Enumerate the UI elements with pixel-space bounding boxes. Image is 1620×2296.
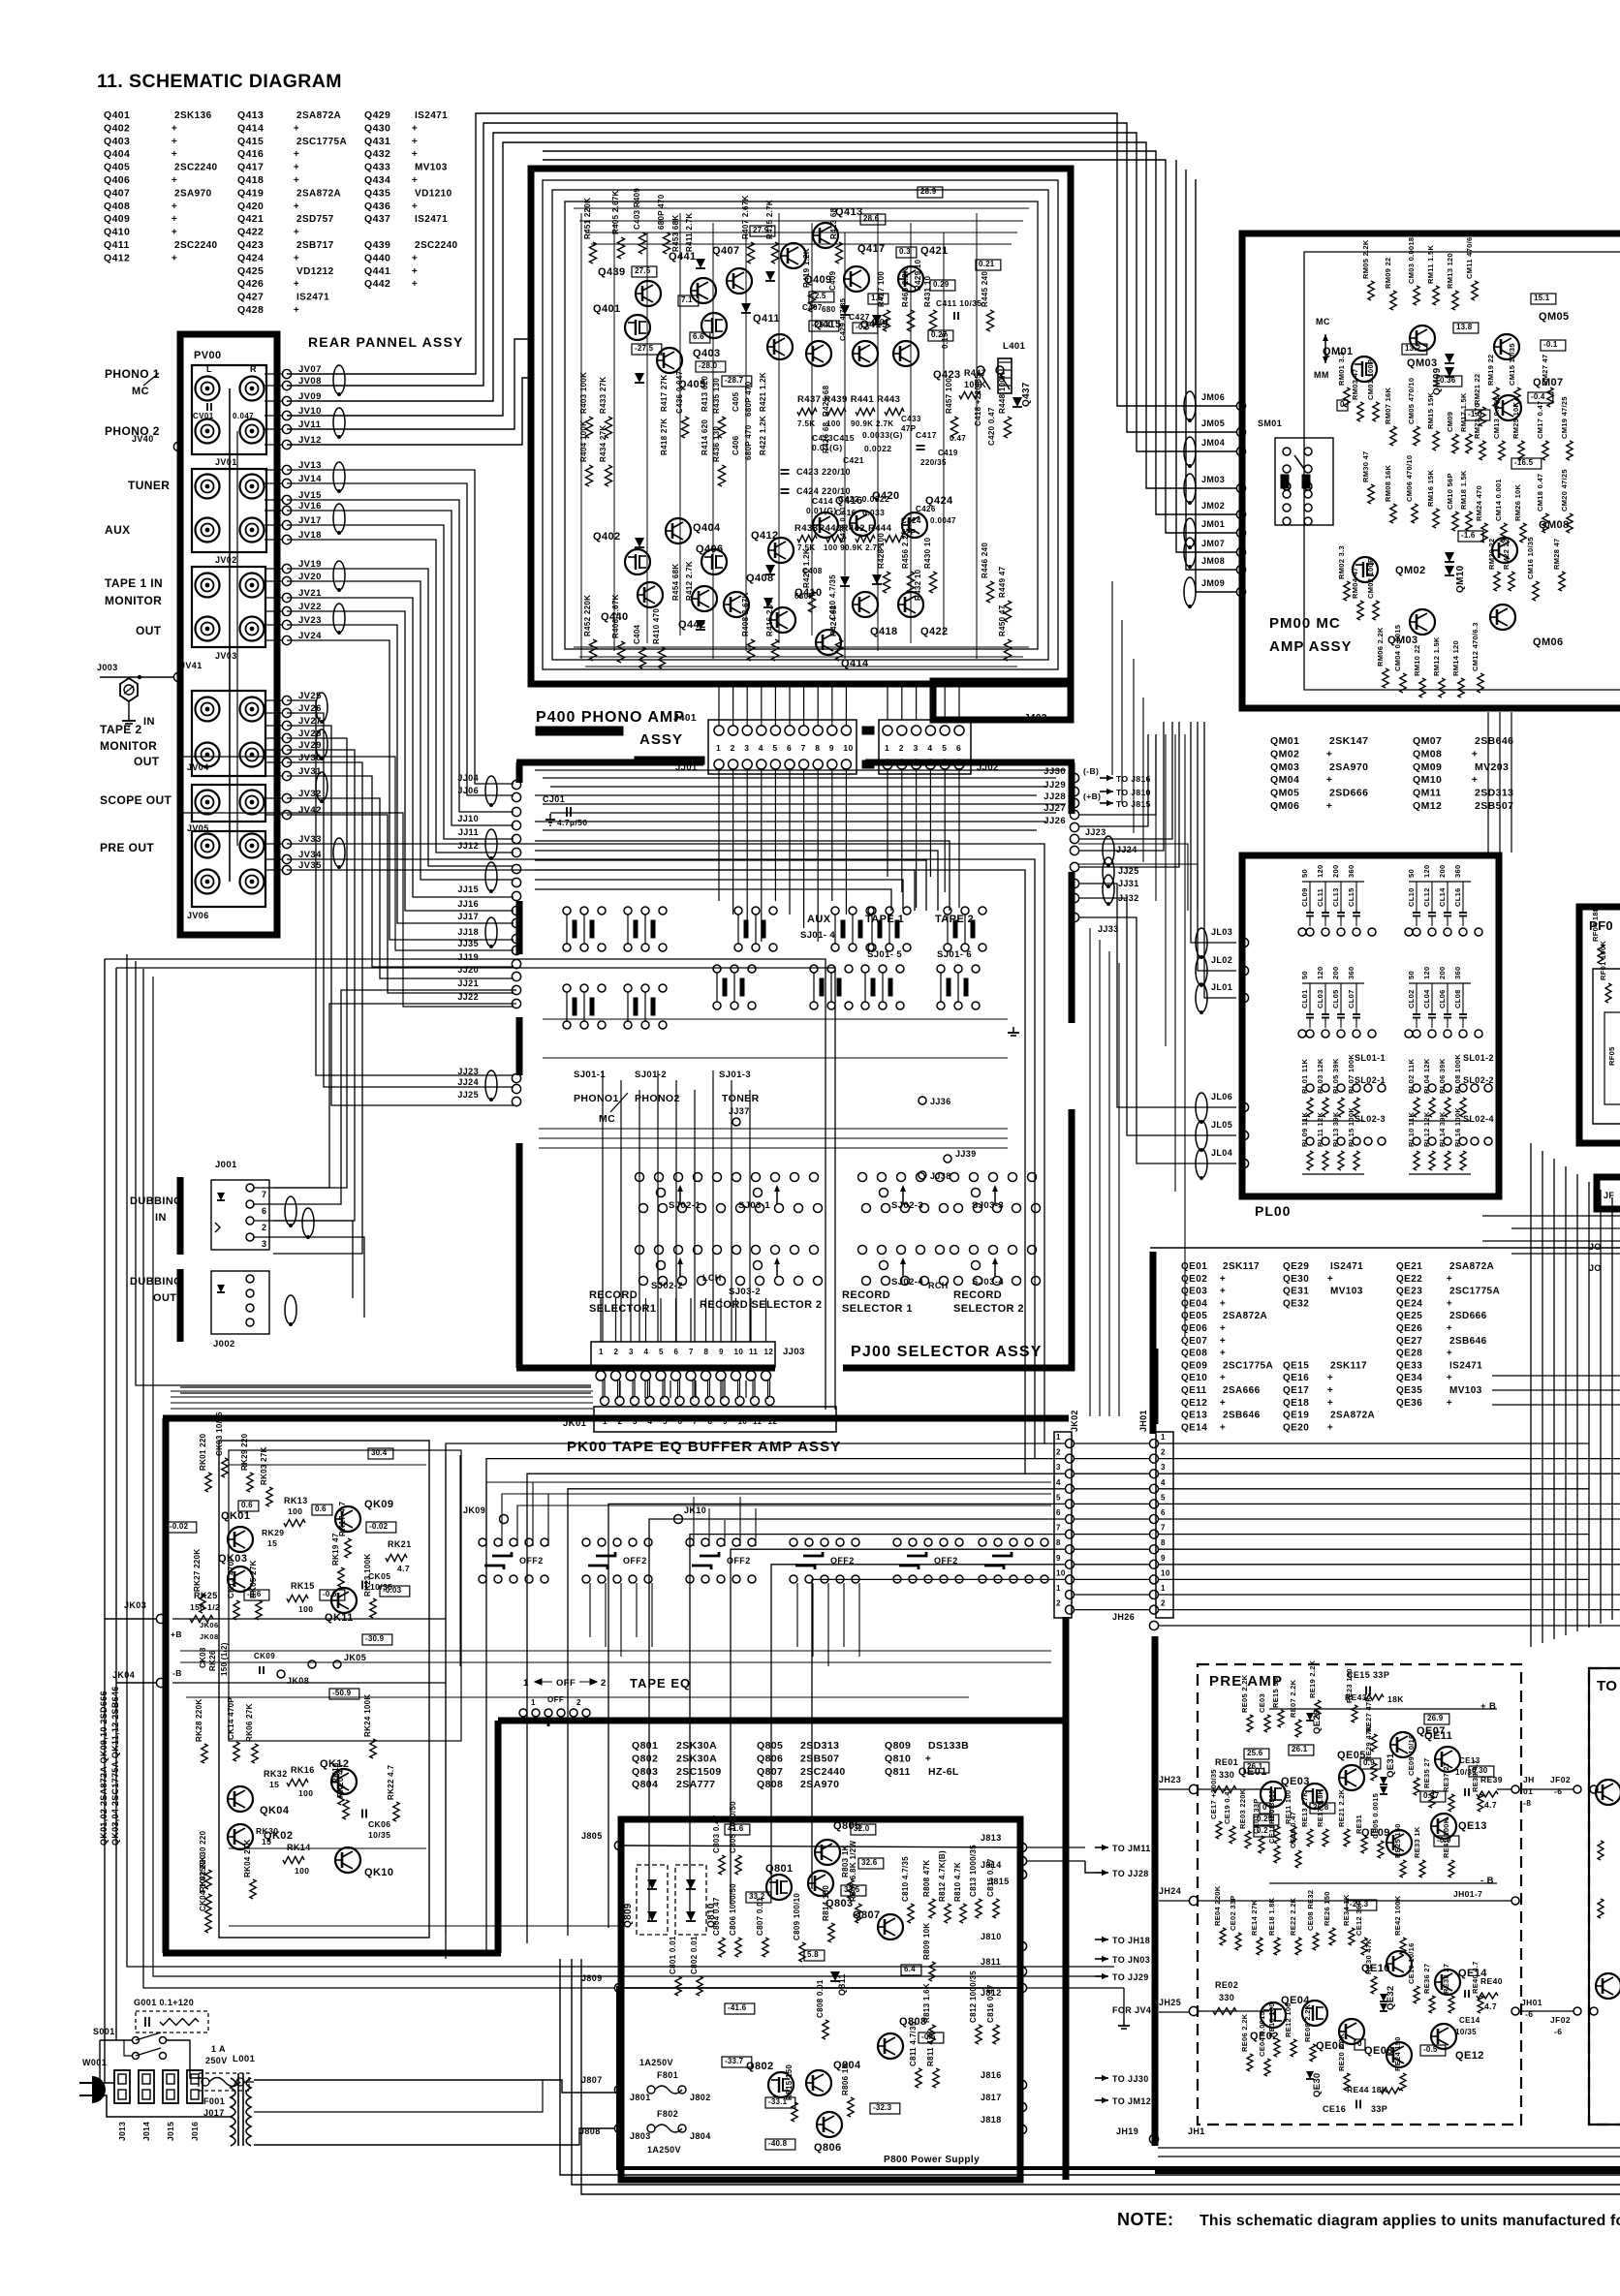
resistor CE04 0.0015 <box>1264 2059 1270 2076</box>
svg-text:TAPE EQ: TAPE EQ <box>630 1676 691 1691</box>
svg-text:TO JN03: TO JN03 <box>1112 1955 1150 1965</box>
pin J813 <box>1017 1843 1026 1851</box>
resistor C801 0.01 <box>675 1976 681 1996</box>
svg-text:Q414: Q414 <box>841 658 869 669</box>
svg-text:OFF2: OFF2 <box>519 1556 544 1566</box>
resistor RM02 3.3 <box>1344 581 1350 601</box>
svg-text:MM: MM <box>1314 370 1329 380</box>
wire rail heavy <box>618 1986 1620 2168</box>
voltage -0.4 <box>1528 392 1553 403</box>
svg-text:+: + <box>1220 1422 1226 1433</box>
svg-text:1: 1 <box>603 1417 607 1426</box>
wire preamp out <box>1497 1788 1511 1790</box>
svg-text:QM02: QM02 <box>1270 748 1299 760</box>
wire PK00 trunk <box>445 1455 447 1933</box>
svg-text:CK05: CK05 <box>368 1571 390 1581</box>
svg-text:13.2: 13.2 <box>1405 344 1421 353</box>
svg-text:C418 +220/35: C418 +220/35 <box>974 374 982 426</box>
pin JJ24r <box>1070 846 1078 854</box>
svg-text:FOR JV40: FOR JV40 <box>1112 2005 1157 2015</box>
resistor RE12 100 <box>1291 2039 1296 2057</box>
wire <box>287 470 514 784</box>
svg-text:CM12 470/6.3: CM12 470/6.3 <box>1471 622 1480 671</box>
svg-text:F001: F001 <box>203 2096 225 2106</box>
pin JV26 <box>282 708 291 717</box>
voltage 26.8 <box>1310 1803 1335 1814</box>
svg-text:TAPE 2: TAPE 2 <box>100 723 142 736</box>
svg-text:Q810: Q810 <box>885 1753 911 1764</box>
svg-text:RE20 2.2K: RE20 2.2K <box>1337 2032 1346 2071</box>
svg-text:SJ01-3: SJ01-3 <box>719 1070 751 1080</box>
pin JK01-1 <box>601 1397 609 1406</box>
wire JH25 <box>1198 2010 1269 2012</box>
pin JJ25r <box>1070 862 1078 871</box>
svg-text:JJ21: JJ21 <box>457 978 479 988</box>
pin JV29 <box>282 745 291 754</box>
voltage 0.30 <box>1469 1766 1494 1777</box>
svg-text:+: + <box>1447 1349 1452 1359</box>
pin JV18 <box>282 535 291 543</box>
svg-text:QE17: QE17 <box>1283 1385 1309 1396</box>
wire <box>287 511 514 825</box>
pin JJ17 <box>512 918 520 927</box>
resistor R803 1K <box>848 1879 854 1899</box>
resistor C403 R409 <box>639 233 645 254</box>
svg-text:1: 1 <box>716 743 721 753</box>
svg-text:SJ03-2: SJ03-2 <box>729 1287 761 1297</box>
svg-text:VD1212: VD1212 <box>296 266 334 277</box>
voltage 0.36 <box>1437 376 1462 387</box>
svg-text:F802: F802 <box>657 2109 678 2119</box>
svg-text:PL00: PL00 <box>1255 1203 1291 1219</box>
wire to JM12 <box>1095 2099 1108 2101</box>
pin JK02-5 <box>1066 1500 1075 1508</box>
resistor RM30 47 <box>1368 484 1374 504</box>
svg-text:Q808: Q808 <box>757 1779 783 1790</box>
resistor RE05 2.2K <box>1247 1715 1253 1732</box>
resistor RL02 11K <box>1414 1098 1419 1117</box>
svg-text:7: 7 <box>1056 1524 1061 1533</box>
wire JK02-JH01 <box>1074 1488 1149 1490</box>
wire to J816 <box>1100 777 1113 779</box>
switch SJ03-4 <box>950 1246 959 1255</box>
svg-text:QE32: QE32 <box>1386 1986 1396 2011</box>
wire bus JM01 <box>543 160 1236 533</box>
svg-text:2SD313: 2SD313 <box>1475 788 1513 799</box>
resistor C809 100/10 <box>799 1942 805 1962</box>
wire <box>287 798 514 978</box>
wire JH01 right <box>1159 1518 1620 1520</box>
resistor RM04 47 <box>1357 601 1363 620</box>
svg-text:9: 9 <box>1056 1554 1061 1563</box>
svg-text:+: + <box>412 175 418 186</box>
svg-text:7.5K: 7.5K <box>797 543 816 552</box>
pin JJ32 <box>1070 893 1078 902</box>
transistor QK09 <box>335 1506 360 1532</box>
svg-text:R421 1.2K: R421 1.2K <box>759 372 767 412</box>
pin JF02-6a <box>1573 1785 1581 1793</box>
pin J812 <box>1017 1983 1026 1992</box>
pin JJ27 <box>1070 810 1078 819</box>
pin JJ22 <box>512 999 520 1008</box>
svg-text:+: + <box>1326 774 1333 786</box>
svg-text:QE20: QE20 <box>1283 1422 1309 1433</box>
svg-text:PHONO2: PHONO2 <box>635 1093 680 1104</box>
pin JK01-8 <box>705 1397 714 1406</box>
switch SJ01-5b <box>861 965 869 973</box>
voltage -1.6 <box>1458 531 1483 542</box>
wire JH01 right <box>1159 1458 1620 1460</box>
svg-text:J818: J818 <box>981 2115 1002 2125</box>
svg-text:CM17 0.47: CM17 0.47 <box>1536 401 1544 439</box>
svg-text:JM07: JM07 <box>1201 539 1225 548</box>
resistor RL05 39K <box>1338 1098 1344 1117</box>
wire JH01 right <box>1159 1534 1589 1536</box>
svg-text:RM15 15K: RM15 15K <box>1426 391 1435 429</box>
svg-text:Q407: Q407 <box>104 187 130 199</box>
voltage -32.3 <box>870 2103 900 2114</box>
voltage 1.5 <box>868 294 888 304</box>
svg-text:Q437: Q437 <box>1021 382 1032 407</box>
svg-text:F801: F801 <box>657 2070 678 2080</box>
svg-text:OUT: OUT <box>136 624 162 637</box>
pin JH24 <box>1189 1896 1198 1905</box>
resistor R407 2.67K <box>747 242 754 264</box>
pin J402-3 <box>912 726 921 735</box>
svg-text:J813: J813 <box>981 1833 1002 1843</box>
svg-text:CM15 10/35: CM15 10/35 <box>1508 343 1516 386</box>
wire JH01 right <box>1159 1609 1620 1611</box>
resistor RK20 4.7 <box>343 1800 349 1819</box>
jack preout2 L <box>196 870 220 894</box>
svg-text:-28.0: -28.0 <box>699 361 718 370</box>
voltage -41.6 <box>725 2003 755 2014</box>
svg-text:R403 100K: R403 100K <box>579 372 588 414</box>
svg-text:Q809: Q809 <box>885 1740 911 1752</box>
pin JV30 <box>282 758 291 766</box>
voltage -0.1 <box>1541 340 1566 351</box>
svg-text:QE21: QE21 <box>1396 1261 1422 1272</box>
diode QM10 <box>1445 552 1454 562</box>
svg-text:2SA666: 2SA666 <box>1223 1385 1261 1396</box>
pin JJ03-5 <box>656 1371 666 1381</box>
wire bus JM09 <box>1196 179 1236 592</box>
svg-text:50: 50 <box>1407 869 1416 878</box>
capacitor CL11 <box>1322 912 1329 914</box>
transistor Q804 <box>806 2070 831 2095</box>
wire -B rail <box>1269 1882 1497 1884</box>
svg-text:CM13 0.001: CM13 0.001 <box>1492 396 1501 439</box>
jack tape1 in L <box>196 574 220 598</box>
resistor RM06 2.2K <box>1383 668 1388 688</box>
wire JK03 feed <box>105 1618 157 1620</box>
svg-text:0.9: 0.9 <box>1363 1758 1375 1767</box>
pin J002-1 <box>246 1275 254 1283</box>
zener Q811 <box>830 1971 840 1981</box>
svg-text:RE15 56: RE15 56 <box>1271 1678 1280 1708</box>
PK00 tape EQ buffer amp assy box <box>163 1415 1069 1422</box>
transistor Q412 <box>768 538 794 563</box>
svg-text:RK24 100K: RK24 100K <box>363 1693 372 1737</box>
svg-text:IN: IN <box>143 716 155 728</box>
svg-text:JJ25: JJ25 <box>457 1090 479 1100</box>
svg-text:100: 100 <box>298 1604 313 1614</box>
svg-text:R809 10K: R809 10K <box>922 1923 931 1960</box>
svg-text:QE10: QE10 <box>1181 1373 1207 1383</box>
svg-text:8: 8 <box>704 1348 709 1356</box>
svg-text:IS2471: IS2471 <box>1330 1261 1363 1272</box>
switch tape EQ OFF2 <box>582 1538 590 1546</box>
resistor C816 0.47 <box>993 2025 999 2044</box>
pin JV09 <box>282 396 291 405</box>
pin JJ29 <box>1070 787 1078 795</box>
wire JK02-JH01 <box>1074 1578 1149 1580</box>
svg-text:RK06 27K: RK06 27K <box>245 1703 254 1742</box>
svg-text:+: + <box>171 149 177 160</box>
switch SJ01-1b <box>563 984 571 992</box>
svg-text:C404: C404 <box>633 624 641 644</box>
wire mesh PJ00 to JJ03 <box>602 1070 604 1342</box>
resistor R404 100K <box>585 465 592 486</box>
svg-text:680P 470: 680P 470 <box>657 194 666 230</box>
pin JJ38 <box>919 1171 926 1179</box>
svg-text:SL02-4: SL02-4 <box>1463 1114 1494 1124</box>
pin JJ <box>512 864 520 873</box>
pin JK02-2 <box>1066 1454 1075 1463</box>
PM00 MC amp assy box <box>1242 233 1620 708</box>
capacitor CL15 <box>1353 912 1360 914</box>
svg-text:-27.5: -27.5 <box>635 344 654 353</box>
diode Q437 <box>1012 397 1022 407</box>
svg-text:+: + <box>294 149 299 160</box>
pin JF02 edge <box>1590 1785 1598 1793</box>
connector JH01 <box>1156 1432 1173 1618</box>
svg-text:3: 3 <box>629 1348 634 1356</box>
resistor CM20 47/25 <box>1567 513 1573 533</box>
svg-text:RM13 120: RM13 120 <box>1446 253 1454 289</box>
svg-text:R413 620: R413 620 <box>701 376 709 412</box>
transistor tone QF <box>1596 1780 1620 1805</box>
svg-text:32.6: 32.6 <box>861 1858 878 1867</box>
svg-text:RM11 1.5K: RM11 1.5K <box>1426 244 1435 284</box>
wire mesh PJ00 verticals from J402 <box>887 769 888 877</box>
svg-text:RK16: RK16 <box>291 1765 315 1775</box>
svg-text:CM14 0.001: CM14 0.001 <box>1494 479 1503 521</box>
pin JH01-10 <box>1150 1575 1159 1584</box>
svg-text:QE14: QE14 <box>1181 1422 1207 1433</box>
svg-text:6: 6 <box>1056 1508 1061 1517</box>
pin JV11 <box>282 424 291 433</box>
pin JH01-2 <box>1150 1605 1159 1614</box>
voltage 0.29 <box>930 280 955 291</box>
voltage 7.1 <box>678 295 699 306</box>
pin JV28 <box>282 733 291 742</box>
svg-text:680: 680 <box>822 305 836 314</box>
svg-text:C424: C424 <box>901 516 921 525</box>
capacitor CL09 <box>1306 912 1314 914</box>
twisted pair <box>485 829 497 858</box>
switch SJ01-6c <box>944 907 951 915</box>
svg-text:4.7: 4.7 <box>1484 1800 1497 1810</box>
svg-text:2SC1775A: 2SC1775A <box>1449 1287 1500 1297</box>
svg-text:CM09: CM09 <box>1446 412 1454 432</box>
svg-text:RM02 3.3: RM02 3.3 <box>1337 545 1346 579</box>
svg-text:Q429: Q429 <box>364 109 390 121</box>
resistor RM19 22 <box>1493 388 1499 407</box>
transistor Q802 <box>768 2072 794 2097</box>
resistor RE25 150 <box>1400 1860 1406 1877</box>
svg-text:330: 330 <box>1219 1993 1234 2002</box>
svg-text:J816: J816 <box>981 2070 1002 2080</box>
pin JV15 <box>282 495 291 504</box>
svg-text:Q439: Q439 <box>598 266 626 278</box>
resistor RE42 100K <box>1400 1938 1406 1955</box>
svg-text:RM21 22: RM21 22 <box>1473 373 1481 405</box>
resistor RE06 2.2K <box>1247 2054 1253 2071</box>
pin JV08 <box>282 381 291 389</box>
wire <box>287 483 514 795</box>
svg-text:JK01: JK01 <box>563 1418 587 1429</box>
svg-text:JJ12: JJ12 <box>457 841 479 851</box>
svg-text:VD1210: VD1210 <box>415 188 452 199</box>
svg-text:C809 100/10: C809 100/10 <box>793 1893 801 1940</box>
resistor CM05 470/10 <box>1414 426 1419 446</box>
transistor QM07 <box>1496 395 1521 420</box>
svg-text:30.4: 30.4 <box>371 1448 388 1457</box>
svg-text:RM10 22: RM10 22 <box>1413 644 1421 676</box>
voltage 0.9 <box>1360 1758 1381 1769</box>
pin J002-3 <box>246 1304 254 1312</box>
svg-text:JJ11: JJ11 <box>458 827 479 837</box>
svg-text:JK08: JK08 <box>200 1632 219 1641</box>
resistor RK19 47 <box>338 1567 344 1587</box>
svg-text:TAPE 1 IN: TAPE 1 IN <box>105 576 163 590</box>
svg-text:RL12 12K: RL12 12K <box>1422 1111 1431 1147</box>
svg-text:OUT: OUT <box>134 755 160 768</box>
svg-text:JJ23: JJ23 <box>1085 827 1106 837</box>
svg-text:JJ16: JJ16 <box>457 899 479 909</box>
svg-text:JH01: JH01 <box>1138 1410 1148 1432</box>
svg-text:QE18: QE18 <box>1283 1398 1309 1409</box>
svg-text:CE16: CE16 <box>1323 2104 1346 2114</box>
svg-text:-0.6: -0.6 <box>323 1590 337 1598</box>
jack tape2 in R <box>240 698 265 722</box>
wire JK04 feed <box>116 1682 157 1684</box>
transistor Q401 <box>625 315 650 340</box>
svg-text:-1.0: -1.0 <box>1468 410 1482 419</box>
resistor RE09 100 <box>1274 1826 1280 1844</box>
svg-text:QE13: QE13 <box>1181 1411 1207 1421</box>
svg-text:JF02: JF02 <box>1550 1775 1571 1784</box>
svg-text:RM20 22: RM20 22 <box>1487 538 1496 570</box>
svg-text:1: 1 <box>1056 1433 1061 1442</box>
svg-text:RM27 47: RM27 47 <box>1541 354 1549 386</box>
svg-text:+: + <box>1220 1336 1226 1347</box>
svg-text:2SA872A: 2SA872A <box>1330 1411 1375 1421</box>
black bar <box>635 757 704 764</box>
svg-text:10/35: 10/35 <box>1455 2028 1477 2036</box>
resistor R434 27K <box>605 465 611 486</box>
svg-text:Q417: Q417 <box>857 243 886 255</box>
svg-text:RM09 22: RM09 22 <box>1384 257 1392 289</box>
svg-text:J402: J402 <box>1024 713 1047 724</box>
wire <box>273 762 362 1254</box>
svg-text:3: 3 <box>744 743 749 753</box>
svg-text:OUT: OUT <box>153 1292 176 1304</box>
resistor RF01 <box>1605 983 1611 1003</box>
resistor RK01 220 <box>205 1473 211 1492</box>
svg-text:RE08 2.2K: RE08 2.2K <box>1303 2003 1312 2042</box>
svg-text:CL04: CL04 <box>1422 989 1431 1008</box>
pin JK02-9 <box>1066 1560 1075 1568</box>
svg-text:2: 2 <box>1056 1599 1061 1608</box>
svg-text:SJ03-1: SJ03-1 <box>738 1200 770 1211</box>
pin JV13 <box>282 465 291 474</box>
jack phono2 L <box>196 419 220 444</box>
svg-text:JJ26: JJ26 <box>1044 816 1066 826</box>
svg-text:50: 50 <box>1300 971 1309 979</box>
resistor CM11 470/6.3 <box>1472 281 1478 300</box>
svg-text:5: 5 <box>772 743 777 753</box>
svg-text:CM16 10/35: CM16 10/35 <box>1526 537 1535 579</box>
resistor R806 1K <box>848 2097 854 2117</box>
resistor C803 0.47 <box>719 1855 725 1875</box>
resistor RM27 47 <box>1547 388 1553 407</box>
voltage -28.0 <box>696 361 726 372</box>
svg-text:2SD313: 2SD313 <box>800 1740 839 1752</box>
svg-text:Q805: Q805 <box>757 1740 783 1752</box>
svg-text:2SD666: 2SD666 <box>1329 788 1368 799</box>
svg-text:C413C415: C413C415 <box>812 433 855 443</box>
svg-text:R446 240: R446 240 <box>981 543 989 578</box>
wire JJ27 up <box>1078 734 1156 815</box>
svg-text:QE11: QE11 <box>1424 1730 1452 1742</box>
pin JJ25 <box>512 1097 520 1105</box>
svg-text:CK06: CK06 <box>368 1819 390 1829</box>
pin JK01-2 <box>615 1397 624 1406</box>
svg-text:200: 200 <box>1438 967 1447 979</box>
resistor R450 47 <box>1004 639 1011 661</box>
svg-text:10: 10 <box>1161 1568 1170 1577</box>
svg-text:0.3: 0.3 <box>899 247 911 256</box>
resistor R812 4.7K(B) <box>945 1904 950 1923</box>
svg-text:RE06 2.2K: RE06 2.2K <box>1240 2013 1249 2052</box>
svg-text:ASSY: ASSY <box>639 731 683 748</box>
svg-text:+: + <box>171 214 177 225</box>
svg-text:CL11: CL11 <box>1316 888 1324 907</box>
transistor QM01 <box>1352 357 1377 382</box>
twisted pair <box>1184 518 1196 547</box>
svg-text:RM03 47: RM03 47 <box>1351 368 1359 400</box>
transistor QE03 <box>1302 1784 1327 1809</box>
resistor RE17 1.8K <box>1323 1829 1328 1846</box>
resistor RM05 2.2K <box>1368 281 1374 300</box>
svg-text:7: 7 <box>1161 1524 1166 1533</box>
resistor RM26 10K <box>1520 523 1526 543</box>
svg-text:IS2471: IS2471 <box>415 110 448 121</box>
svg-text:J810: J810 <box>981 1932 1002 1941</box>
svg-text:R813 1.6K: R813 1.6K <box>922 1983 931 2023</box>
svg-text:2SA970: 2SA970 <box>1329 761 1368 773</box>
svg-text:2: 2 <box>614 1348 619 1356</box>
svg-text:QE27: QE27 <box>1396 1336 1422 1347</box>
svg-text:2SK30A: 2SK30A <box>676 1740 717 1752</box>
svg-text:2: 2 <box>618 1417 623 1426</box>
svg-text:2SK147: 2SK147 <box>1329 735 1368 747</box>
wire JJ03-JK01 stubs <box>602 1381 604 1399</box>
pin JH23 <box>1189 1784 1198 1793</box>
transistor Q801 <box>766 1875 792 1900</box>
